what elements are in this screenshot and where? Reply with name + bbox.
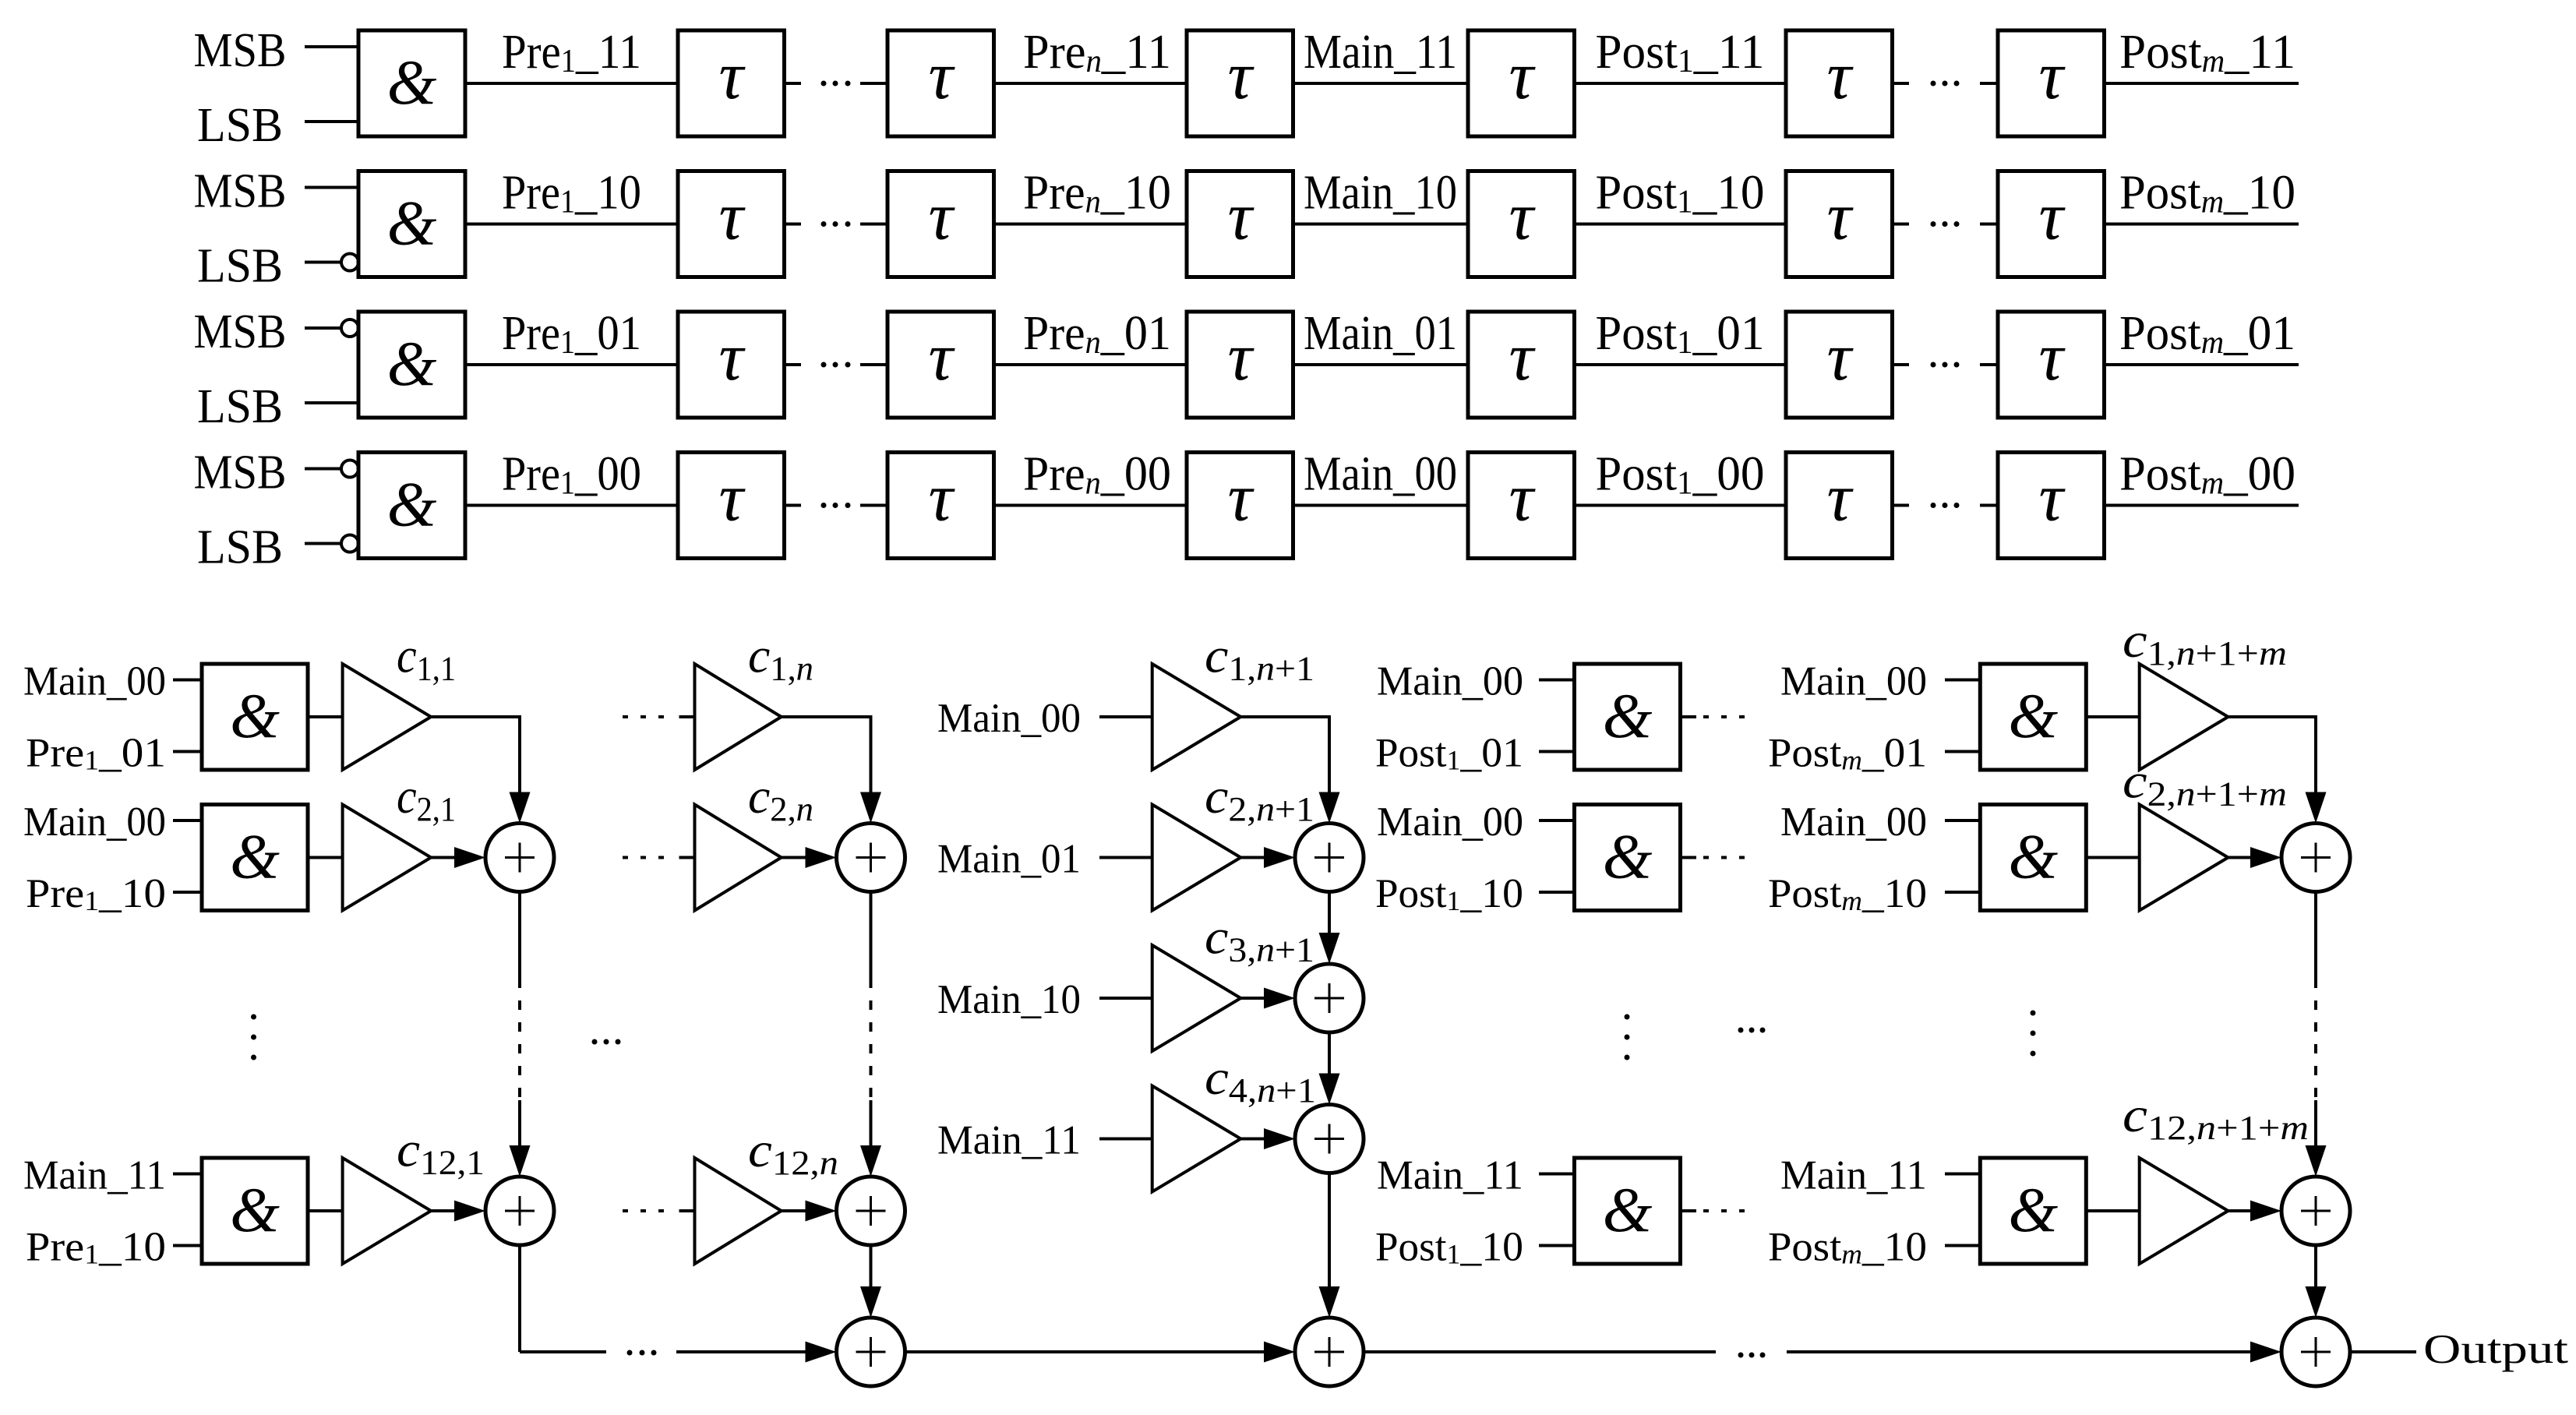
svg-text:Main_11: Main_11 bbox=[937, 1118, 1081, 1163]
AND gate G_11 bbox=[358, 30, 465, 136]
wire amplifier c12,n+1+m arrow into adder S5_12 bbox=[2228, 1201, 2281, 1222]
wire Main_00 to amplifier col3 bbox=[1099, 715, 1152, 718]
node MSB input label row 10 bbox=[194, 165, 287, 218]
svg-text:+1: +1 bbox=[1275, 790, 1314, 828]
net label Post1_11 bbox=[1596, 26, 1765, 79]
node label Main_00 col4 b1 bbox=[1377, 659, 1523, 704]
gain label c_12,n bbox=[748, 1122, 838, 1182]
wire stub before tau2 row 00 bbox=[860, 504, 887, 507]
inverter bubble MSB row 01 bbox=[341, 319, 358, 337]
node label Output bbox=[2423, 1327, 2568, 1372]
wire stub after tau1 row 10 bbox=[785, 223, 802, 226]
node label Main_00 col5 b2 bbox=[1780, 799, 1927, 845]
svg-text:1: 1 bbox=[1447, 745, 1461, 776]
wire dotted continuation col1 S1 to S12 bbox=[510, 892, 531, 1177]
svg-text:1: 1 bbox=[560, 466, 575, 502]
svg-text:1: 1 bbox=[1677, 185, 1693, 221]
ellipsis dots delay chain pre row 01 bbox=[821, 362, 851, 368]
svg-text:+1: +1 bbox=[1275, 650, 1314, 688]
svg-text:_11: _11 bbox=[575, 26, 641, 79]
svg-text:n: n bbox=[1256, 790, 1275, 828]
amplifier triangle col1 b2 bbox=[343, 805, 431, 911]
node LSB input label row 11 bbox=[197, 99, 283, 152]
net Pren_11 wire bbox=[994, 82, 1187, 85]
delay element tau3_00 bbox=[1187, 453, 1293, 559]
svg-text:1: 1 bbox=[561, 44, 576, 79]
svg-text:1: 1 bbox=[1447, 1239, 1461, 1270]
node label Main_11 col1 b12 bbox=[23, 1153, 166, 1198]
svg-text:_01: _01 bbox=[1100, 307, 1171, 360]
svg-text:&: & bbox=[1603, 821, 1653, 892]
net Pre1_11 wire bbox=[465, 82, 678, 85]
svg-text:MSB: MSB bbox=[194, 165, 287, 218]
svg-text:n: n bbox=[796, 650, 813, 688]
wire amplifier c3,n+1 arrow into adder S3b bbox=[1240, 988, 1295, 1009]
svg-text:_01: _01 bbox=[1692, 307, 1765, 360]
AND gate AND_col5_b12 bbox=[1980, 1158, 2086, 1264]
svg-text:c: c bbox=[1205, 768, 1228, 824]
net Pre1_01 wire bbox=[465, 363, 678, 366]
wire input bottom col4 b1 bbox=[1539, 750, 1575, 753]
adder S2 col2 bbox=[837, 824, 905, 892]
svg-text:12,: 12, bbox=[772, 1144, 820, 1182]
svg-text:1: 1 bbox=[84, 745, 99, 776]
svg-text:n: n bbox=[2176, 634, 2196, 672]
svg-text:τ: τ bbox=[1509, 460, 1536, 536]
AND gate G_00 bbox=[358, 453, 465, 559]
svg-text:3,: 3, bbox=[1228, 931, 1256, 969]
node label Pre1_10 col1 b12 bbox=[26, 1225, 166, 1270]
svg-text:_10: _10 bbox=[2223, 167, 2295, 220]
svg-text:Pre: Pre bbox=[502, 307, 560, 360]
node label Main_00 col5 b1 bbox=[1780, 659, 1927, 704]
svg-text:_01: _01 bbox=[98, 731, 166, 776]
net Pre1_10 wire bbox=[465, 223, 678, 226]
delay element tau2_01 bbox=[887, 312, 994, 418]
amplifier triangle col2 b1 bbox=[695, 664, 782, 770]
svg-text:Post: Post bbox=[1596, 448, 1678, 501]
amplifier triangle col5 b12 bbox=[2140, 1158, 2228, 1264]
delay element tau4_11 bbox=[1468, 30, 1575, 136]
wire AND to amplifier col5 b2 bbox=[2086, 856, 2139, 859]
wire amplifier c12,1 arrow into adder S12 bbox=[431, 1201, 485, 1222]
svg-text:1: 1 bbox=[560, 185, 575, 221]
wire input top col5 b1 bbox=[1945, 679, 1980, 682]
wire input top col5 b12 bbox=[1945, 1173, 1980, 1176]
wire stub before tau6 row 11 bbox=[1980, 82, 1998, 85]
wire input bottom col1 b12 bbox=[173, 1244, 202, 1247]
chain adder C2 bbox=[837, 1318, 905, 1386]
node label Main_01 col3 bbox=[937, 837, 1081, 882]
net label Postm_10 bbox=[2119, 167, 2295, 221]
net label Main_00 bbox=[1304, 448, 1457, 501]
gain label c_12,1 bbox=[397, 1122, 485, 1182]
svg-text:Post: Post bbox=[2119, 448, 2201, 501]
net label Post1_10 bbox=[1596, 167, 1765, 221]
svg-text:m: m bbox=[2201, 466, 2224, 502]
svg-text:2,: 2, bbox=[770, 790, 796, 828]
svg-text:_11: _11 bbox=[1693, 26, 1765, 79]
node label Post1_10 col4 b2 bbox=[1375, 871, 1523, 916]
svg-text:c: c bbox=[1205, 909, 1228, 965]
node label Main_00 col1 b2 bbox=[23, 799, 166, 845]
wire input bottom col4 b12 bbox=[1539, 1244, 1575, 1247]
svg-text:τ: τ bbox=[928, 460, 955, 536]
svg-text:_10: _10 bbox=[1861, 871, 1927, 916]
svg-text:_10: _10 bbox=[574, 167, 641, 220]
svg-text:_11: _11 bbox=[2224, 26, 2295, 79]
svg-text:Main_00: Main_00 bbox=[23, 659, 166, 704]
wire LSB to AND gate row 01 bbox=[305, 401, 358, 404]
svg-text:4,: 4, bbox=[1229, 1071, 1257, 1110]
amplifier triangle col2 b2 bbox=[695, 805, 782, 911]
svg-text:Post: Post bbox=[1768, 1225, 1842, 1270]
wire Main_10 to amplifier col3 bbox=[1099, 997, 1152, 1000]
ellipsis dots delay chain pre row 10 bbox=[821, 221, 851, 227]
svg-text:Post: Post bbox=[2119, 307, 2201, 360]
delay element tau4_01 bbox=[1468, 312, 1575, 418]
wire adder S2_12 down into chain adder C2 bbox=[860, 1245, 881, 1318]
vertical ellipsis left margin bbox=[251, 1014, 256, 1060]
svg-text:Post: Post bbox=[1596, 167, 1678, 220]
wire adder S5_12 down into chain adder C5 bbox=[2306, 1245, 2327, 1318]
amplifier triangle col3 Main_00 bbox=[1152, 664, 1241, 770]
svg-text:Pre: Pre bbox=[502, 448, 560, 501]
svg-text:m: m bbox=[1841, 745, 1862, 776]
wire stub before tau2 row 01 bbox=[860, 363, 887, 366]
svg-text:n: n bbox=[2197, 1109, 2216, 1147]
svg-text:Post: Post bbox=[1596, 26, 1678, 79]
net Pren_00 wire bbox=[994, 504, 1187, 507]
node label Postm_10 col5 b12 bbox=[1768, 1225, 1927, 1270]
delay element tau1_00 bbox=[678, 453, 785, 559]
horizontal ellipsis between col4 and col5 bbox=[1738, 1028, 1766, 1033]
net label Post1_00 bbox=[1596, 448, 1765, 502]
gain label c_1,n+1+m bbox=[2123, 612, 2287, 672]
adder S12 col1 bbox=[485, 1177, 554, 1245]
svg-text:_00: _00 bbox=[2223, 448, 2295, 501]
wire amplifier c1,n+1 to corner and down into adder S3a bbox=[1240, 715, 1340, 824]
svg-text:Post: Post bbox=[1768, 871, 1842, 916]
ellipsis dots delay chain pre row 00 bbox=[821, 503, 851, 508]
svg-text:Main_10: Main_10 bbox=[1304, 167, 1457, 220]
delay element tau6_11 bbox=[1998, 30, 2105, 136]
svg-text:n: n bbox=[1085, 466, 1101, 502]
wire stub after tau5 row 00 bbox=[1893, 504, 1910, 507]
svg-text:12,1: 12,1 bbox=[420, 1144, 485, 1182]
svg-text:m: m bbox=[2201, 325, 2224, 361]
node label Post1_01 col4 b1 bbox=[1375, 731, 1523, 776]
node label Main_11 col4 b12 bbox=[1377, 1153, 1523, 1198]
net Main_10 wire bbox=[1293, 223, 1469, 226]
svg-text:Pre: Pre bbox=[26, 871, 84, 916]
net label Pre1_00 bbox=[502, 448, 641, 502]
net Main_11 wire bbox=[1293, 82, 1469, 85]
svg-text:1: 1 bbox=[1677, 325, 1693, 361]
svg-text:n: n bbox=[1256, 650, 1275, 688]
node label Main_10 col3 bbox=[937, 977, 1081, 1022]
svg-text:&: & bbox=[230, 1174, 280, 1245]
svg-text:Main_00: Main_00 bbox=[1304, 448, 1457, 501]
wire LSB to AND gate row 11 bbox=[305, 120, 358, 123]
net label Pren_11 bbox=[1023, 26, 1171, 79]
svg-text:τ: τ bbox=[1227, 319, 1254, 395]
svg-text:2,: 2, bbox=[2147, 775, 2176, 813]
wire dashed output col4 b1 bbox=[1681, 715, 1754, 718]
svg-text:Pre: Pre bbox=[1023, 167, 1085, 220]
net Postm_00 wire bbox=[2105, 504, 2299, 507]
amplifier triangle col1 b1 bbox=[343, 664, 431, 770]
svg-text:Main_01: Main_01 bbox=[937, 837, 1081, 882]
node LSB input label row 10 bbox=[197, 240, 283, 293]
wire MSB to AND gate row 01 bbox=[305, 319, 358, 337]
wire amplifier c2,n+1 arrow into adder S3a bbox=[1240, 847, 1295, 868]
svg-text:τ: τ bbox=[2038, 179, 2066, 255]
wire stub before tau6 row 00 bbox=[1980, 504, 1998, 507]
svg-text:n: n bbox=[2176, 775, 2196, 813]
gain label c_2,n bbox=[748, 768, 813, 828]
svg-text:τ: τ bbox=[928, 179, 955, 255]
wire dotted continuation col2 S2 to S2_12 bbox=[860, 892, 881, 1177]
svg-text:m: m bbox=[1841, 1239, 1862, 1270]
wire stub before tau2 row 11 bbox=[860, 82, 887, 85]
net label Pren_00 bbox=[1023, 448, 1171, 502]
AND gate AND_col5_b2 bbox=[1980, 805, 2086, 911]
wire amplifier c4,n+1 arrow into adder S3c bbox=[1240, 1128, 1295, 1149]
svg-text:_10: _10 bbox=[1459, 1225, 1523, 1270]
wire input bottom col4 b2 bbox=[1539, 891, 1575, 894]
svg-text:τ: τ bbox=[1509, 38, 1536, 114]
delay element tau6_01 bbox=[1998, 312, 2105, 418]
wire input bottom col5 b2 bbox=[1945, 891, 1980, 894]
adder S3c col3 bbox=[1295, 1105, 1364, 1173]
wire input top col4 b1 bbox=[1539, 679, 1575, 682]
svg-text:LSB: LSB bbox=[197, 240, 283, 293]
wire dotted continuation col5 S5 to S5_12 bbox=[2306, 892, 2327, 1177]
AND gate AND_col1_b2 bbox=[202, 805, 308, 911]
svg-text:n: n bbox=[1085, 325, 1101, 361]
svg-text:1: 1 bbox=[1678, 44, 1694, 79]
svg-text:Main_10: Main_10 bbox=[937, 977, 1081, 1022]
node label Main_00 col1 b1 bbox=[23, 659, 166, 704]
wire input top col1 b12 bbox=[173, 1173, 202, 1176]
wire adder S3a down into adder S3b bbox=[1319, 892, 1340, 965]
delay element tau5_00 bbox=[1786, 453, 1893, 559]
svg-text:τ: τ bbox=[1509, 319, 1536, 395]
svg-text:1: 1 bbox=[560, 325, 575, 361]
svg-text:Main_00: Main_00 bbox=[1780, 659, 1927, 704]
node LSB input label row 00 bbox=[197, 521, 283, 574]
svg-text:_10: _10 bbox=[1692, 167, 1765, 220]
net label Postm_01 bbox=[2119, 307, 2295, 361]
net Post1_11 wire bbox=[1575, 82, 1787, 85]
inverter bubble LSB row 10 bbox=[341, 254, 358, 271]
gain label c_1,n+1 bbox=[1205, 628, 1314, 688]
inverter bubble MSB row 00 bbox=[341, 460, 358, 478]
svg-text:c: c bbox=[397, 628, 417, 683]
wire MSB to AND gate row 11 bbox=[305, 45, 358, 48]
svg-text:Post: Post bbox=[1375, 871, 1447, 916]
svg-text:c: c bbox=[2123, 753, 2147, 809]
svg-text:_10: _10 bbox=[1100, 167, 1171, 220]
net Main_00 wire bbox=[1293, 504, 1469, 507]
svg-text:_10: _10 bbox=[1861, 1225, 1927, 1270]
wire amplifier c2,n arrow into adder S2 bbox=[782, 847, 837, 868]
gain label c_12,n+1+m bbox=[2123, 1087, 2309, 1147]
vertical ellipsis col4 bbox=[1625, 1014, 1630, 1060]
svg-text:τ: τ bbox=[928, 38, 955, 114]
wire Main_11 to amplifier col3 bbox=[1099, 1138, 1152, 1141]
AND gate AND_col1_b12 bbox=[202, 1158, 308, 1264]
svg-text:Main_00: Main_00 bbox=[1780, 799, 1927, 845]
wire stub after tau1 row 01 bbox=[785, 363, 802, 366]
horizontal ellipsis between col1 and col2 bbox=[592, 1039, 621, 1045]
wire LSB to AND gate row 00 bbox=[305, 535, 358, 552]
svg-text:τ: τ bbox=[718, 319, 746, 395]
ellipsis dots delay chain post row 00 bbox=[1931, 503, 1960, 508]
svg-text:Post: Post bbox=[1768, 731, 1842, 776]
wire stub after tau1 row 11 bbox=[785, 82, 802, 85]
gain label c_1,n bbox=[748, 628, 813, 688]
net label Main_11 bbox=[1304, 26, 1457, 79]
svg-text:Pre: Pre bbox=[502, 26, 561, 79]
net Pren_10 wire bbox=[994, 223, 1187, 226]
svg-text:Post: Post bbox=[1596, 307, 1678, 360]
svg-text:Main_11: Main_11 bbox=[1304, 26, 1457, 79]
svg-text:n: n bbox=[1257, 1071, 1276, 1110]
wire stub before tau6 row 01 bbox=[1980, 363, 1998, 366]
adder S3b col3 bbox=[1295, 964, 1364, 1032]
svg-text:&: & bbox=[387, 47, 437, 118]
ellipsis dots delay chain post row 01 bbox=[1931, 362, 1960, 368]
svg-text:1,: 1, bbox=[770, 650, 796, 688]
svg-text:+1: +1 bbox=[1275, 931, 1314, 969]
svg-text:n: n bbox=[1256, 931, 1275, 969]
node label Main_00 col3 bbox=[937, 696, 1081, 741]
wire LSB to AND gate row 10 bbox=[305, 254, 358, 271]
svg-text:&: & bbox=[387, 188, 437, 259]
adder S1 col1 bbox=[485, 824, 554, 892]
svg-text:τ: τ bbox=[928, 319, 955, 395]
net Post1_01 wire bbox=[1575, 363, 1787, 366]
svg-text:&: & bbox=[2008, 821, 2058, 892]
svg-text:_11: _11 bbox=[1101, 26, 1171, 79]
svg-text:Main_00: Main_00 bbox=[1377, 799, 1523, 845]
wire input bottom col5 b1 bbox=[1945, 750, 1980, 753]
net label Pre1_01 bbox=[502, 307, 641, 361]
svg-text:&: & bbox=[1603, 680, 1653, 751]
svg-text:LSB: LSB bbox=[197, 521, 283, 574]
svg-text:_00: _00 bbox=[574, 448, 641, 501]
svg-text:c: c bbox=[2123, 1087, 2147, 1142]
svg-text:&: & bbox=[387, 328, 437, 399]
wire amplifier c1,n to corner and down into adder S2 bbox=[782, 715, 881, 824]
amplifier triangle col5 b1 bbox=[2140, 664, 2228, 770]
delay element tau1_11 bbox=[678, 30, 785, 136]
amplifier triangle col3 Main_10 bbox=[1152, 945, 1241, 1051]
svg-text:Output: Output bbox=[2423, 1327, 2568, 1372]
wire input top col4 b2 bbox=[1539, 819, 1575, 822]
svg-text:m: m bbox=[2259, 634, 2287, 672]
wire chain C5 to Output bbox=[2350, 1350, 2416, 1353]
net label Main_10 bbox=[1304, 167, 1457, 220]
gain label c_4,n+1 bbox=[1205, 1050, 1316, 1110]
wire stub after tau5 row 01 bbox=[1893, 363, 1910, 366]
wire amplifier c2,n+1+m arrow into adder S5 bbox=[2228, 847, 2281, 868]
wire amplifier c1,1 to corner and down into adder S1 bbox=[431, 715, 531, 824]
svg-text:_01: _01 bbox=[1861, 731, 1927, 776]
svg-text:n: n bbox=[796, 790, 813, 828]
svg-text:Post: Post bbox=[1375, 1225, 1447, 1270]
svg-text:τ: τ bbox=[1227, 179, 1254, 255]
AND gate AND_col4_b2 bbox=[1575, 805, 1681, 911]
wire input bottom col5 b12 bbox=[1945, 1244, 1980, 1247]
wire AND to amplifier col5 b12 bbox=[2086, 1209, 2139, 1212]
wire input top col4 b12 bbox=[1539, 1173, 1575, 1176]
svg-text:+1: +1 bbox=[1276, 1071, 1316, 1110]
svg-text:LSB: LSB bbox=[197, 380, 283, 433]
svg-text:c: c bbox=[1205, 1050, 1229, 1105]
svg-text:m: m bbox=[2201, 185, 2224, 221]
svg-text:1: 1 bbox=[84, 1239, 99, 1270]
svg-text:τ: τ bbox=[718, 38, 746, 114]
net label Pre1_11 bbox=[502, 26, 641, 79]
svg-text:_00: _00 bbox=[1692, 448, 1765, 501]
net Pren_01 wire bbox=[994, 363, 1187, 366]
svg-text:Main_11: Main_11 bbox=[1780, 1153, 1927, 1198]
svg-text:τ: τ bbox=[2038, 38, 2066, 114]
node MSB input label row 01 bbox=[194, 305, 287, 358]
net Postm_10 wire bbox=[2105, 223, 2299, 226]
net label Pren_10 bbox=[1023, 167, 1171, 221]
svg-text:Pre: Pre bbox=[1023, 26, 1086, 79]
svg-text:c: c bbox=[1205, 628, 1228, 683]
svg-text:2,: 2, bbox=[1228, 790, 1256, 828]
svg-text:τ: τ bbox=[1227, 38, 1254, 114]
amplifier triangle col2 b12 bbox=[695, 1158, 782, 1264]
svg-text:Pre: Pre bbox=[1023, 307, 1085, 360]
svg-text:_01: _01 bbox=[1459, 731, 1523, 776]
wire adder S3b down into adder S3c bbox=[1319, 1032, 1340, 1105]
wire stub after tau5 row 10 bbox=[1893, 223, 1910, 226]
svg-text:2,1: 2,1 bbox=[417, 790, 456, 828]
wire dashed lead-in col2 b12 bbox=[623, 1209, 695, 1212]
svg-text:c: c bbox=[748, 628, 770, 683]
wire stub after tau1 row 00 bbox=[785, 504, 802, 507]
svg-text:Main_01: Main_01 bbox=[1304, 307, 1457, 360]
chain adder C3 bbox=[1295, 1318, 1364, 1386]
svg-text:Main_11: Main_11 bbox=[1377, 1153, 1523, 1198]
ellipsis dots output chain col3-col5 bbox=[1738, 1353, 1766, 1358]
amplifier triangle col5 b2 bbox=[2140, 805, 2228, 911]
svg-text:m: m bbox=[2202, 44, 2225, 79]
inverter bubble LSB row 00 bbox=[341, 535, 358, 552]
wire output chain into adder C5 bbox=[1787, 1342, 2281, 1363]
wire dashed output col4 b2 bbox=[1681, 856, 1754, 859]
AND gate G_01 bbox=[358, 312, 465, 418]
wire AND to amplifier col1 b2 bbox=[308, 856, 343, 859]
svg-text:n: n bbox=[1086, 44, 1102, 79]
node label Postm_01 col5 b1 bbox=[1768, 731, 1927, 776]
svg-text:&: & bbox=[387, 469, 437, 540]
delay element tau5_01 bbox=[1786, 312, 1893, 418]
node label Post1_10 col4 b12 bbox=[1375, 1225, 1523, 1270]
AND gate AND_col1_b1 bbox=[202, 664, 308, 770]
svg-text:τ: τ bbox=[718, 460, 746, 536]
svg-text:MSB: MSB bbox=[194, 24, 287, 77]
AND gate AND_col4_b1 bbox=[1575, 664, 1681, 770]
wire input bottom col1 b1 bbox=[173, 750, 202, 753]
